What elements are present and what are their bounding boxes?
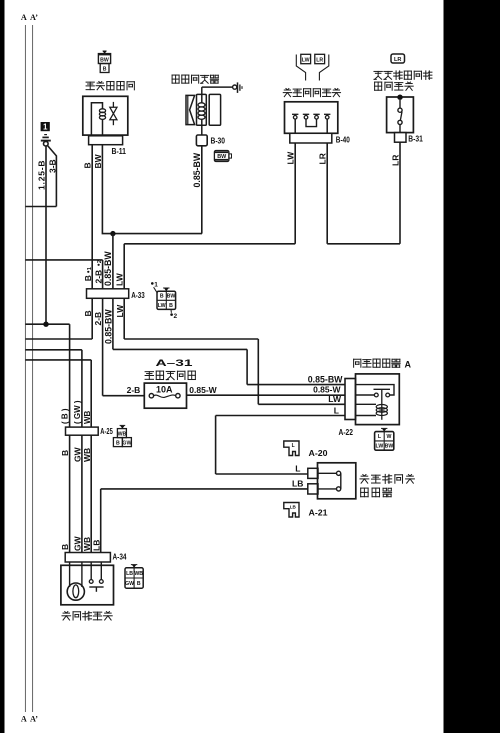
- svg-text:B: B: [116, 441, 120, 447]
- svg-text:BW: BW: [93, 153, 103, 168]
- svg-text:1: 1: [154, 282, 158, 289]
- ground (clutch body): [202, 82, 242, 93]
- svg-text:2-B: 2-B: [93, 312, 103, 326]
- svg-text:LR: LR: [394, 57, 401, 63]
- wire *2 2-B label: [93, 260, 103, 283]
- svg-text:A-21: A-21: [309, 508, 329, 517]
- label 空调机开关 (air conditioner switch): [62, 611, 112, 620]
- svg-text:LW: LW: [158, 303, 166, 309]
- wire LW (B-40 down): [286, 143, 296, 244]
- fuse A-31 10A: [144, 383, 186, 408]
- wire 0.85-BW (into relay): [247, 374, 345, 384]
- svg-text:0.85-W: 0.85-W: [189, 385, 217, 395]
- svg-text:B: B: [83, 310, 93, 316]
- wire 0.85-BW (B-30 down): [192, 146, 202, 234]
- svg-text:B: B: [83, 162, 93, 168]
- wire LW (A-33 to relay): [115, 298, 258, 404]
- label 专用保险丝 (dedicated fuse): [145, 371, 195, 380]
- svg-text:B-11: B-11: [112, 147, 127, 156]
- note *1 (A-33): [151, 282, 158, 294]
- svg-text:A–31: A–31: [156, 358, 194, 369]
- svg-text:BW: BW: [385, 444, 394, 450]
- coolant temp switch B-31 body: [387, 95, 414, 133]
- wire B (B-11 to A-33): [83, 145, 93, 289]
- svg-text:0.85-BW: 0.85-BW: [103, 251, 113, 286]
- connector A-22 bar: [339, 379, 356, 437]
- label 散热叶片式 (radiator fan type): [360, 474, 414, 483]
- connector icon (BW/B) above solenoid valve: [98, 51, 110, 73]
- wire L (relay to thermostat): [216, 405, 345, 474]
- svg-text:WB: WB: [134, 571, 143, 577]
- svg-text:A-22: A-22: [339, 428, 354, 437]
- vacuum solenoid valve B-11 body: [83, 96, 128, 135]
- wire B (A-33 to bus): [25, 298, 93, 339]
- pin icon A-21: [284, 503, 328, 518]
- label 发动机冷却液 (engine coolant): [374, 71, 432, 80]
- svg-text:BW: BW: [100, 57, 109, 63]
- svg-text:A’: A’: [30, 13, 38, 22]
- svg-text:L: L: [292, 443, 295, 449]
- connector B-30: [196, 135, 225, 146]
- pin icon LW (pressure switch): [301, 54, 311, 63]
- wire BW (B-11 to junction): [93, 145, 113, 234]
- svg-text:W: W: [387, 434, 392, 440]
- svg-text:B-30: B-30: [211, 136, 226, 145]
- label A-31: [156, 358, 194, 369]
- wire GW (A-25 to A-34): [73, 435, 83, 552]
- svg-text:GW: GW: [125, 581, 134, 587]
- svg-text:LR: LR: [390, 155, 400, 166]
- pin icon A-34 (LB WB / GW B): [125, 565, 143, 589]
- power relay A body: [356, 374, 400, 425]
- svg-text:LW: LW: [115, 304, 125, 318]
- connector B-11: [89, 136, 127, 156]
- svg-text:LR: LR: [316, 57, 323, 63]
- wire B (A-25 to A-34): [60, 435, 70, 552]
- svg-text:2-B: 2-B: [93, 270, 103, 284]
- connector A-34 bar: [65, 553, 127, 563]
- wire LR (link to B-31): [327, 243, 400, 245]
- label 真空电磁阀 (vacuum solenoid valve): [86, 82, 134, 90]
- bus rail A: [21, 13, 27, 724]
- wire LR (B-31 down): [390, 142, 400, 244]
- clutch rotor box: [209, 94, 220, 125]
- wire WB bus tap: [25, 360, 91, 427]
- svg-text:A-34: A-34: [113, 553, 127, 562]
- wire 2-B (bus to A-33): [25, 260, 102, 289]
- svg-text:( GW ): ( GW ): [73, 400, 82, 424]
- label 温度开关 (temperature switch): [375, 82, 414, 90]
- svg-text:GW: GW: [122, 441, 131, 447]
- label 双重压力开关 (dual pressure switch): [283, 89, 340, 97]
- wire L label: [295, 463, 300, 473]
- svg-text:1: 1: [43, 123, 48, 132]
- air conditioner switch body: [61, 562, 114, 605]
- wire LW (across to A-33): [115, 244, 296, 289]
- svg-text:LB: LB: [91, 540, 101, 551]
- svg-text:2-B: 2-B: [127, 385, 141, 395]
- label 电磁离合器 (electromagnetic clutch): [172, 75, 218, 83]
- wire (B) bus tap: [25, 322, 69, 428]
- pin icon A-25 (WB / B GW): [113, 425, 131, 446]
- connector B-40: [290, 133, 350, 144]
- svg-text:BW: BW: [217, 154, 227, 160]
- svg-text:B-40: B-40: [336, 135, 350, 144]
- svg-text:0.85-BW: 0.85-BW: [308, 374, 343, 384]
- svg-text:LR: LR: [318, 153, 328, 164]
- svg-text:B: B: [103, 67, 107, 73]
- wire LR (B-40 down): [318, 143, 328, 244]
- svg-text:A: A: [21, 13, 27, 22]
- fusible link terminal 1: [41, 122, 51, 146]
- svg-text:BW: BW: [167, 294, 176, 300]
- pin icon A-33 (B BW / LW B): [157, 288, 176, 309]
- svg-text:LB: LB: [292, 478, 303, 488]
- svg-text:A-20: A-20: [309, 449, 329, 458]
- svg-text:10A: 10A: [156, 384, 173, 394]
- svg-text:0.85-W: 0.85-W: [313, 385, 341, 395]
- thermostat terminal L: [308, 468, 318, 478]
- wire WB (A-25 to A-34): [82, 435, 92, 552]
- svg-text:B: B: [60, 450, 70, 456]
- bracket lines (pressure switch icons): [296, 55, 329, 81]
- svg-text:A-25: A-25: [100, 427, 113, 436]
- pin icon LR (temp switch): [391, 54, 405, 63]
- connector B-31: [395, 133, 424, 144]
- wire 3-B: [25, 146, 57, 207]
- clutch coil: [197, 87, 207, 135]
- svg-text:1.25-B: 1.25-B: [36, 160, 46, 190]
- pin icon A-22 (L W / LW BW): [375, 428, 394, 450]
- wire LW (into relay): [258, 394, 345, 404]
- svg-text:( B ): ( B ): [60, 408, 69, 424]
- svg-text:L: L: [334, 405, 339, 415]
- svg-text:A-33: A-33: [131, 291, 145, 300]
- svg-text:0.85-BW: 0.85-BW: [192, 152, 202, 187]
- wire 0.85-W (fuse to relay): [187, 385, 346, 396]
- radiator fan thermostat body: [318, 463, 356, 499]
- svg-text:A: A: [405, 359, 412, 369]
- note *2 (A-33): [170, 310, 177, 320]
- svg-text:LW: LW: [328, 394, 342, 404]
- svg-text:WB: WB: [118, 432, 127, 438]
- wire 0.85-BW (A-33 to relay): [103, 298, 247, 384]
- wire *1 B label: [83, 266, 93, 281]
- connector A-33 bar: [87, 289, 146, 300]
- svg-text:B: B: [137, 581, 141, 587]
- svg-text:LB: LB: [290, 504, 297, 509]
- clutch pulley: [186, 95, 195, 124]
- svg-text:B: B: [160, 294, 164, 300]
- pin icon BW (B-30): [214, 151, 231, 162]
- thermostat terminal LB: [308, 484, 318, 494]
- dual pressure switch B-40 body: [285, 102, 338, 134]
- svg-text:LW: LW: [286, 151, 296, 165]
- svg-text:B: B: [83, 275, 93, 281]
- svg-text:A’: A’: [30, 715, 38, 724]
- svg-text:LW: LW: [302, 57, 310, 63]
- label 恒温器 (thermostat): [361, 488, 392, 497]
- wire 1.25-B: [36, 146, 46, 324]
- connector A-25 bar: [66, 427, 114, 436]
- svg-text:B-31: B-31: [408, 135, 423, 144]
- wire (GW) bus tap: [25, 350, 82, 427]
- svg-text:WB: WB: [83, 410, 92, 424]
- wire 2-B (A-33 to fuse): [93, 298, 103, 395]
- pin icon A-20: [284, 441, 328, 458]
- svg-text:WB: WB: [82, 448, 92, 462]
- wire 0.85-BW (junction to A-33): [103, 234, 113, 289]
- svg-text:B: B: [60, 544, 70, 550]
- pin icon LR (pressure switch): [315, 54, 325, 63]
- svg-text:0.85-BW: 0.85-BW: [103, 309, 113, 344]
- svg-text:B: B: [169, 303, 173, 309]
- svg-text:3-B: 3-B: [47, 159, 57, 173]
- label 功率继电器 A (power relay A): [354, 359, 412, 369]
- svg-text:A: A: [21, 715, 27, 724]
- wire 2-B (to fuse): [103, 385, 145, 396]
- svg-text:L: L: [295, 463, 300, 473]
- junction BW/0.85-BW: [110, 231, 202, 236]
- svg-text:LW: LW: [376, 444, 384, 450]
- svg-text:2: 2: [174, 313, 178, 320]
- wire LB (thermostat to A-34): [91, 478, 307, 552]
- svg-text:LB: LB: [126, 571, 133, 577]
- bus rail A': [30, 13, 38, 724]
- check valve symbol in B-11: [110, 102, 117, 125]
- svg-text:2: 2: [97, 260, 103, 263]
- svg-text:LW: LW: [115, 272, 125, 286]
